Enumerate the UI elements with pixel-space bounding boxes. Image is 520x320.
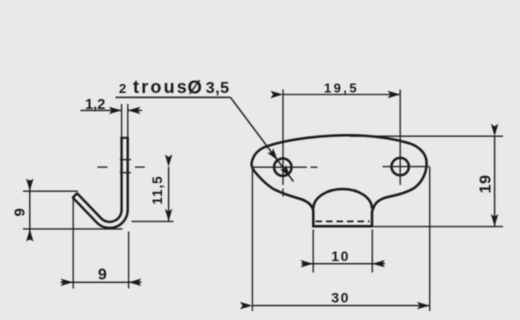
right hole horizontal centerline [383,166,430,168]
label "2 trous Ø 3,5" with leader to left hole [116,77,294,182]
svg-text:9: 9 [98,266,107,283]
dimension 11,5 (hook depth) [132,167,174,222]
arrow right (outside, pointing left) [129,281,142,283]
leader arrow at hole rim (upper) [270,150,278,161]
arrow left (outside, pointing right) [302,263,314,265]
dimension line with right arrow [128,109,142,111]
extension line right [127,104,129,137]
front view: left hole [274,159,291,176]
dimension line [303,263,384,265]
svg-text:19: 19 [477,174,494,193]
extension line bottom [132,220,174,222]
svg-text:trous: trous [133,77,189,97]
leader line [231,97,294,181]
side view: hole centerline dash left of bar [97,166,107,168]
dimension line with arrows [494,136,496,226]
front view: dome (projection of bent hook arm) [313,189,372,209]
extension line bottom [23,228,123,230]
front view: right hole [392,158,409,175]
side view: hole lower edge tick on bar [120,172,131,174]
side view: bar top end cap [120,137,128,139]
dimension line [62,281,141,283]
dimension 19 (plate height, right) [350,136,503,226]
svg-text:1,2: 1,2 [85,97,105,113]
leader arrow at hole rim (lower) [284,168,291,177]
dimension line with arrows [253,305,430,307]
extension line left [121,104,123,137]
arrow right (outside, pointing left) [372,263,385,265]
svg-text:9: 9 [12,208,29,216]
svg-text:11,5: 11,5 [150,175,165,204]
dimension 19,5 (hole spacing) [283,80,400,95]
svg-text:2: 2 [119,81,126,96]
svg-text:Ø: Ø [188,77,202,98]
arrow top (outside, pointing down) [29,180,31,191]
front view: hidden bend line (dashed) [316,220,370,222]
label underline [116,96,231,98]
dimension line with arrows [168,167,170,222]
dimension 9 (hook width, bottom) [61,199,142,289]
left hole vertical centerline (lower dash) [282,189,284,197]
side view: hook tip end cap [72,193,77,198]
front view: plate outline with tab [252,135,427,226]
extension line right [371,230,373,273]
dimension 1,2 (strip thickness) [81,97,143,137]
dimension 9 (hook opening height, left) [12,180,123,240]
left hole horizontal centerline [251,166,307,168]
dimension line with left arrow [81,109,122,111]
extension line left [72,199,74,289]
svg-text:19,5: 19,5 [324,80,359,95]
left hole vertical centerline (upper part) [282,90,284,186]
extension line left [312,230,314,273]
svg-text:10: 10 [331,248,350,264]
extension line bottom [374,226,504,228]
svg-text:30: 30 [331,290,350,306]
arrow left (outside, pointing right) [61,281,74,283]
dimension 10 (tab width) [302,230,386,273]
extension line left [251,170,253,311]
side view: hole upper edge tick on bar [120,159,131,161]
left hole horizontal centerline (end dash) [311,166,318,168]
side view: hole centerline dash right of bar [135,166,145,168]
dimension 30 (plate overall width) [252,167,429,311]
dimension line [29,185,31,236]
extension line top [350,135,503,137]
extension line top [23,190,78,192]
side view: hook strip profile (double-line sheet section) [75,138,125,225]
arrow bottom (outside, pointing up) [29,229,31,240]
extension line right [429,167,431,311]
svg-text:3,5: 3,5 [206,80,230,97]
dimension line with arrows [283,94,400,96]
extension line right [128,232,130,289]
right hole vertical centerline [399,90,401,186]
